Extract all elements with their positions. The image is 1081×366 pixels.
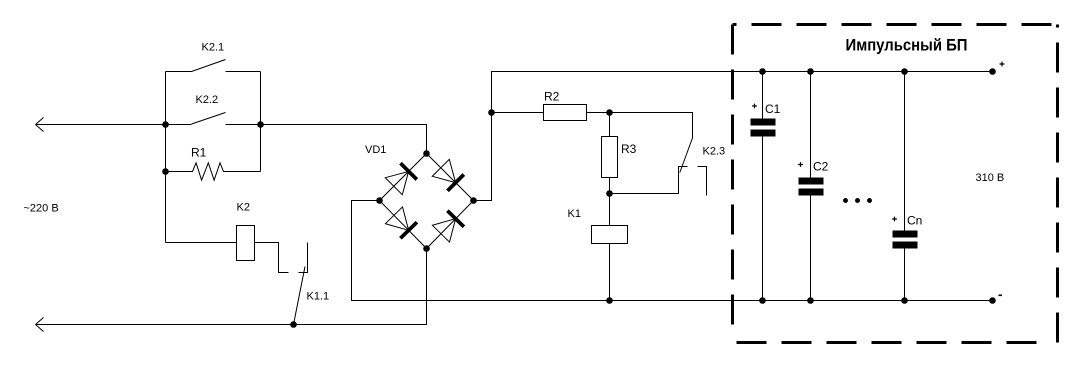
svg-text:K2.3: K2.3 (703, 146, 726, 158)
svg-text:K2.1: K2.1 (202, 42, 225, 54)
svg-text:K2: K2 (237, 202, 250, 214)
svg-text:~220 В: ~220 В (24, 202, 59, 214)
svg-text:C1: C1 (765, 102, 781, 116)
svg-text:K2.2: K2.2 (196, 94, 219, 106)
svg-text:C2: C2 (813, 160, 829, 174)
svg-text:K1.1: K1.1 (307, 290, 330, 302)
svg-text:R2: R2 (544, 90, 560, 104)
svg-text:Импульсный БП: Импульсный БП (846, 36, 968, 55)
svg-text:Cn: Cn (907, 214, 922, 228)
svg-text:R3: R3 (621, 142, 637, 156)
svg-text:R1: R1 (191, 146, 207, 160)
svg-text:K1: K1 (568, 208, 581, 220)
svg-text:310 В: 310 В (976, 172, 1005, 184)
svg-text:VD1: VD1 (365, 144, 386, 156)
